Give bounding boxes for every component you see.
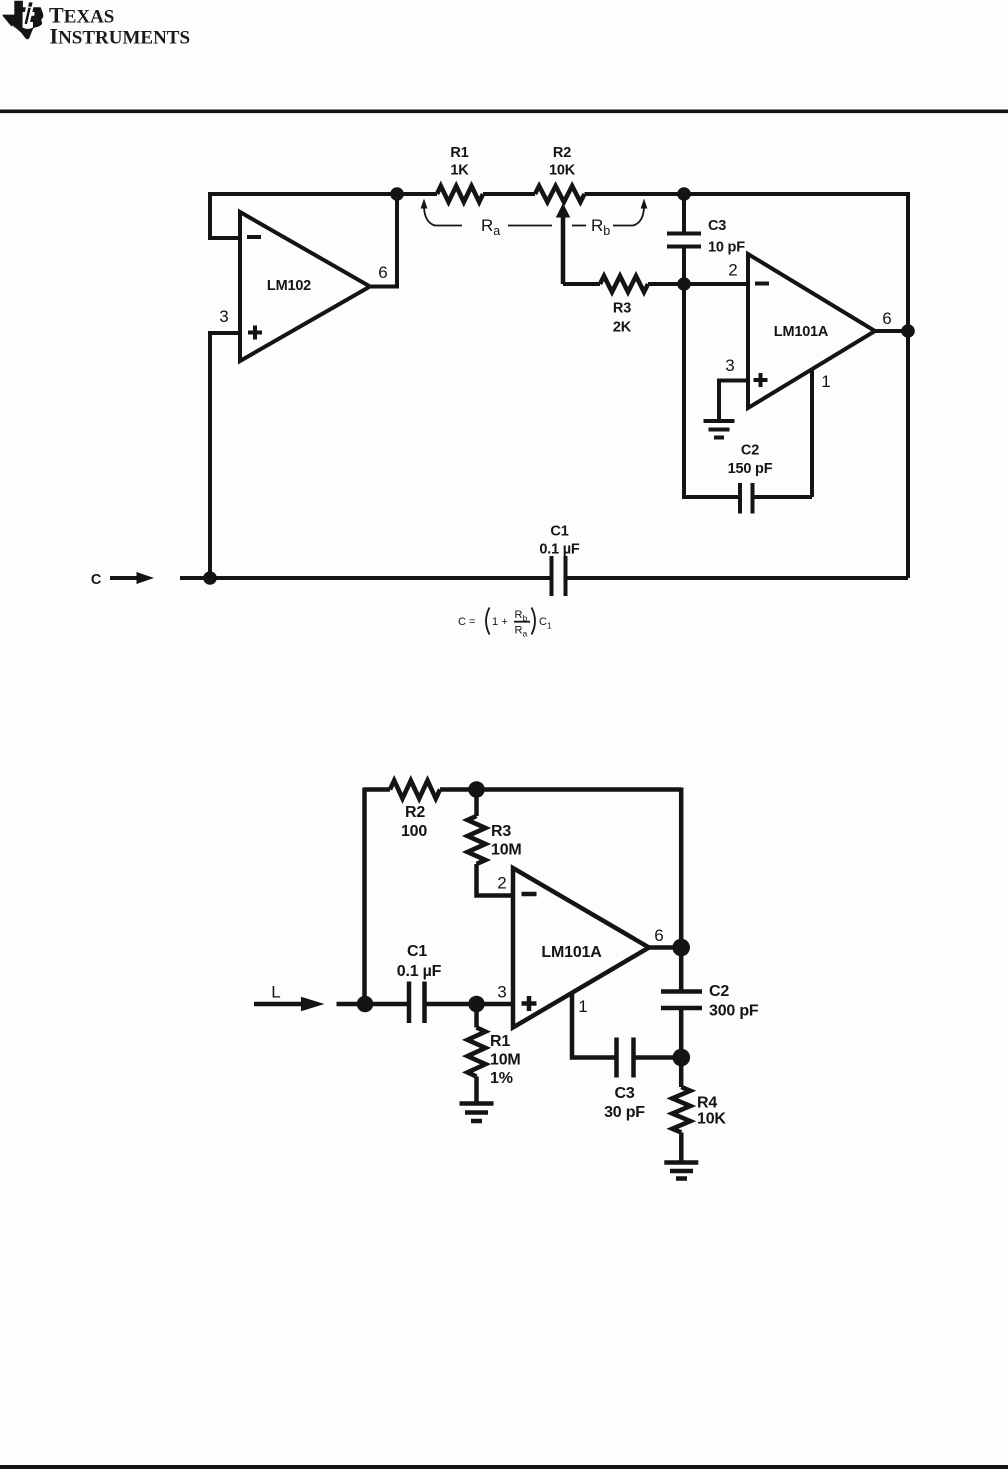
svg-text:LM102: LM102 (267, 278, 311, 294)
wire: R3 to inverting input (477, 864, 514, 896)
svg-text:C1: C1 (550, 524, 568, 540)
wire: C2 to R4 (679, 1008, 684, 1087)
node: R1 junction (468, 996, 485, 1013)
svg-text:2: 2 (497, 874, 506, 893)
svg-text:R4: R4 (697, 1095, 717, 1112)
svg-text:1K: 1K (450, 163, 469, 179)
wire: top feedback rail (210, 192, 908, 196)
wire: input to C1 (337, 1002, 410, 1007)
wire: R3 to inverting input (648, 282, 748, 286)
svg-text:3: 3 (497, 983, 506, 1002)
svg-text:Ra: Ra (515, 625, 528, 639)
wire: bottom rail left (180, 576, 552, 580)
svg-text:6: 6 (654, 926, 663, 945)
input arrow (110, 576, 140, 580)
node: rail / C3 junction (677, 187, 691, 201)
node: output junction (672, 939, 690, 957)
resistor R3 (600, 276, 648, 292)
wire: noninverting to ground (719, 381, 748, 420)
svg-text:3: 3 (725, 356, 734, 375)
svg-text:10K: 10K (549, 163, 576, 179)
capacitor C2 (740, 483, 753, 514)
svg-text:6: 6 (882, 309, 891, 328)
wire: bottom rail right (566, 576, 909, 580)
svg-text:100: 100 (401, 823, 427, 840)
svg-text:R2: R2 (553, 145, 571, 161)
svg-text:300 pF: 300 pF (709, 1003, 759, 1020)
svg-text:1%: 1% (490, 1070, 513, 1087)
wire: U1 output to rail (370, 194, 397, 287)
wire: top rail (365, 787, 682, 792)
resistor R2 (390, 781, 440, 799)
svg-text:INSTRUMENTS: INSTRUMENTS (50, 24, 191, 49)
wire: left rail (362, 788, 367, 1005)
wire: output rail down to C2 (679, 948, 684, 992)
ground (R1) (460, 1104, 494, 1122)
minus sign U2 (755, 282, 769, 286)
capacitor C1 (552, 556, 566, 596)
wire: pin1 drop (572, 993, 617, 1058)
minus sign U1 (247, 235, 261, 239)
wire: U2 output (875, 329, 908, 333)
potentiometer R2 (535, 186, 585, 202)
wire: C3 to R4 node (634, 1055, 682, 1060)
svg-text:2: 2 (728, 261, 737, 280)
capacitor C2 (661, 992, 702, 1009)
bottom rule (0, 1465, 1008, 1469)
svg-text:10 pF: 10 pF (708, 240, 745, 256)
svg-text:LM101A: LM101A (774, 324, 829, 340)
node: R2/R3 junction (468, 781, 485, 798)
wire: junction to R3 (474, 790, 479, 817)
svg-text:2K: 2K (613, 320, 632, 336)
svg-text:6: 6 (378, 263, 387, 282)
svg-text:LM101A: LM101A (541, 944, 602, 961)
svg-text:L: L (271, 983, 280, 1002)
svg-text:R3: R3 (491, 823, 511, 840)
capacitor C3 (682, 194, 686, 232)
op-amp U2 LM101A (748, 254, 875, 408)
node: output junction (901, 324, 915, 338)
annotation Ra (424, 206, 462, 226)
svg-text:C: C (458, 616, 466, 628)
svg-text:150 pF: 150 pF (728, 461, 773, 477)
svg-text:C1: C1 (407, 943, 427, 960)
svg-text:TEXAS: TEXAS (49, 3, 114, 28)
svg-text:=: = (469, 616, 475, 628)
resistor R3 (468, 816, 486, 864)
wire: R1 to ground (474, 1077, 479, 1104)
svg-text:10K: 10K (697, 1111, 726, 1128)
svg-text:C2: C2 (741, 443, 759, 459)
svg-text:C2: C2 (709, 983, 729, 1000)
svg-text:R1: R1 (490, 1033, 510, 1050)
svg-text:0.1 µF: 0.1 µF (539, 542, 580, 558)
R2 wiper arrow (556, 203, 570, 218)
capacitor C3 (617, 1038, 634, 1078)
wire: right rail down (906, 192, 910, 578)
svg-text:0.1 µF: 0.1 µF (397, 963, 442, 980)
wire: output (649, 945, 681, 950)
top rule (0, 110, 1008, 114)
resistor R4 (672, 1087, 690, 1133)
minus sign U3 (522, 892, 537, 897)
svg-text:30 pF: 30 pF (604, 1104, 645, 1121)
svg-text:C3: C3 (708, 218, 726, 234)
TI logo bug (3, 1, 44, 40)
wire: noninverting stub (210, 333, 240, 578)
node: C3 / inverting junction (677, 277, 691, 291)
node: input junction (357, 996, 374, 1013)
svg-text:Rb: Rb (591, 216, 610, 238)
svg-text:+: + (502, 616, 508, 628)
svg-text:1: 1 (492, 616, 498, 628)
resistor R1 (474, 1004, 479, 1028)
svg-text:1: 1 (821, 372, 830, 391)
svg-text:C3: C3 (614, 1085, 634, 1102)
node: rail/output junction (390, 187, 404, 201)
svg-text:R3: R3 (613, 301, 631, 317)
op-amp U3 LM101A (513, 868, 649, 1028)
svg-text:R1: R1 (450, 145, 468, 161)
ground (R4) (664, 1163, 698, 1179)
ground (U2 +) (704, 421, 735, 438)
svg-text:Ra: Ra (481, 216, 500, 238)
svg-text:C1: C1 (539, 616, 552, 631)
node: C3/R4 junction (673, 1049, 691, 1067)
node: bottom junction (203, 571, 217, 585)
wire: pin1 drop (810, 370, 814, 498)
svg-text:3: 3 (219, 307, 228, 326)
wire: R4 to ground (679, 1133, 684, 1163)
plus sign U3 (522, 996, 537, 1011)
capacitor C1 (409, 982, 425, 1024)
annotation Rb (572, 225, 586, 227)
plus sign U1 (248, 326, 262, 340)
wire: C1 to noninverting input (425, 1002, 514, 1007)
plus sign U2 (754, 373, 768, 387)
wire: wiper to R3 (563, 282, 600, 286)
resistor R1 (437, 186, 483, 202)
svg-text:C: C (91, 572, 102, 588)
svg-text:R2: R2 (405, 804, 425, 821)
wire: left inverting input drop (210, 192, 240, 238)
svg-text:1: 1 (578, 997, 587, 1016)
svg-text:10M: 10M (491, 842, 522, 859)
wire: right rail down (679, 788, 684, 948)
wire: comp loop bottom (684, 284, 812, 497)
input arrow (254, 1002, 302, 1007)
svg-text:10M: 10M (490, 1052, 521, 1069)
op-amp U1 LM102 (240, 212, 370, 361)
